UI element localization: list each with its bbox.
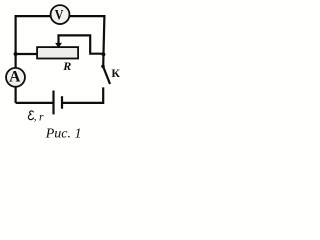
svg-text:V: V <box>55 7 64 24</box>
svg-text:,: , <box>34 111 37 123</box>
svg-text:К: К <box>111 66 120 80</box>
svg-text:r: r <box>39 111 44 123</box>
svg-text:Рис. 1: Рис. 1 <box>45 127 82 142</box>
svg-text:A: A <box>9 69 21 86</box>
svg-text:R: R <box>62 59 71 73</box>
